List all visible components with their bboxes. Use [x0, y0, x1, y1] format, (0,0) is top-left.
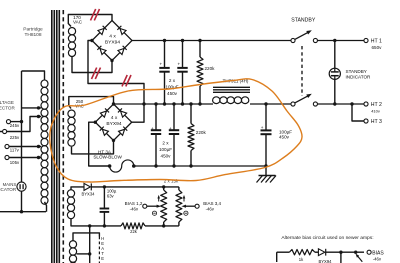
wire HT2 out: [318, 103, 365, 105]
wire bias top rail: [91, 186, 179, 188]
transformer electrostatic shield (dashed): [62, 10, 64, 263]
junction pot P1 top: [162, 185, 165, 188]
svg-text:+: +: [177, 61, 180, 66]
wire mains live bus: [21, 71, 23, 182]
red cut mark 2: [92, 68, 97, 79]
svg-text:220k: 220k: [205, 66, 216, 71]
capacitor C4 100u 63v: [103, 187, 105, 209]
polarity symbol P1: [152, 211, 156, 215]
svg-text:450v: 450v: [279, 135, 290, 140]
svg-text:Alternate bias circuit used on: Alternate bias circuit used on newer amp…: [281, 235, 373, 241]
wire mains bus below indicator: [21, 191, 23, 212]
junction cap C4 bottom: [103, 224, 106, 227]
terminal BIAS -46v: [367, 250, 371, 254]
fuse F1 HT 3A: [110, 160, 134, 172]
svg-text:-46v: -46v: [373, 256, 382, 261]
junction alt node A: [339, 251, 342, 254]
wire HT1 out: [318, 40, 365, 42]
red cut mark 1: [91, 9, 96, 20]
svg-text:HT 1: HT 1: [371, 39, 382, 45]
svg-text:245v: 245v: [10, 123, 20, 128]
wire 225v tap: [7, 117, 42, 132]
resistor R2 220k: [190, 104, 192, 124]
junction 245v bus: [20, 120, 23, 123]
primary winding: [41, 80, 48, 88]
junction cap C4 top: [103, 185, 106, 188]
wire S2 top to BR2: [69, 97, 114, 109]
svg-text:SELECTOR: SELECTOR: [0, 106, 15, 111]
wire heater CT lead: [77, 253, 90, 255]
svg-text:Partridge: Partridge: [23, 26, 43, 32]
terminal 105v: [5, 155, 9, 159]
svg-text:TH8108: TH8108: [24, 32, 41, 38]
junction resistor R1 bottom: [198, 102, 201, 105]
ground: [265, 166, 267, 176]
diode BR2 top-right: [118, 108, 127, 117]
wire HT1 rail: [132, 40, 291, 42]
wire S3 bottom lead: [71, 219, 121, 226]
wire heater top lead: [73, 233, 99, 241]
junction tap 225v coil: [37, 115, 40, 118]
svg-text:4 x: 4 x: [111, 115, 118, 121]
wire BR2 right vertex to mid rail: [132, 104, 144, 122]
junction cap C2b bottom: [172, 164, 175, 167]
junction HT3 branch: [350, 102, 353, 105]
terminal BIAS 3,4: [195, 204, 199, 208]
svg-text:BYX34: BYX34: [81, 191, 95, 196]
svg-text:HT 2: HT 2: [371, 102, 382, 108]
junction tap 117v coil: [37, 145, 40, 148]
potentiometer P2 15k: [178, 187, 180, 190]
junction pot P1 bottom: [162, 224, 165, 227]
junction cap C1b top: [181, 39, 184, 42]
diode BR2 top-left: [100, 108, 109, 117]
standby switch SW1b: [291, 102, 295, 106]
svg-text:BIAS: BIAS: [372, 250, 384, 256]
junction cap C1b bottom: [181, 102, 184, 105]
terminal BIAS 1,2: [143, 204, 147, 208]
wire alt left end: [276, 252, 278, 262]
resistor R3 22k: [121, 223, 145, 229]
standby indicator lamp: [329, 68, 340, 79]
svg-text:450v: 450v: [167, 91, 178, 96]
bridge rectifier BR2 diamond: [95, 104, 131, 140]
terminal HT 3: [364, 119, 368, 123]
wire 117v tap: [9, 146, 41, 148]
terminal HT 2: [364, 102, 368, 106]
wire alt branch A: [340, 252, 342, 263]
wire S2 bottom to BR2: [72, 140, 114, 154]
standby switch SW1a: [291, 38, 295, 42]
wire S3 top lead: [71, 187, 84, 190]
svg-text:2 x: 2 x: [162, 141, 169, 146]
wiper arrow BIAS 1,2: [147, 205, 158, 207]
wire indicator branch: [334, 41, 336, 69]
capacitor C3 100uF 450v: [265, 104, 267, 130]
wiper arrow BIAS 3,4: [185, 205, 195, 207]
potentiometer P1 15k: [163, 187, 165, 190]
resistor R4 1k: [289, 250, 314, 255]
svg-text:STANDBY: STANDBY: [291, 17, 316, 23]
svg-text:BIAS 3,4: BIAS 3,4: [203, 201, 221, 206]
diode D2 BYX94: [318, 249, 324, 256]
junction standby indicator bottom: [333, 102, 336, 105]
wire HT3 branch: [352, 104, 364, 121]
wire heater CT bus: [89, 226, 91, 263]
polarity symbol P2: [184, 211, 188, 215]
svg-text:220k: 220k: [196, 130, 207, 135]
transformer T1 core laminations: [51, 10, 53, 263]
svg-text:INDICATOR: INDICATOR: [346, 74, 372, 79]
svg-text:VAC: VAC: [73, 20, 83, 25]
svg-text:22k: 22k: [130, 229, 138, 234]
junction BR2 left vertex: [94, 121, 97, 124]
junction BR2 top vertex: [112, 102, 115, 105]
diode BR1 top-left: [98, 26, 107, 35]
svg-text:BYX94: BYX94: [318, 259, 332, 263]
wire alt out: [326, 251, 364, 253]
svg-text:63v: 63v: [107, 193, 115, 198]
orange highlight ellipse: [50, 79, 302, 182]
junction cap C3 top: [264, 102, 267, 105]
svg-text:410v: 410v: [371, 109, 380, 114]
wire BR2 negative to fuse: [89, 122, 110, 166]
junction alt node B: [354, 251, 357, 254]
diode BR1 bottom-right: [118, 46, 127, 55]
svg-text:BYX94: BYX94: [106, 121, 122, 127]
svg-text:+: +: [261, 125, 264, 130]
svg-text:VOLTAGE: VOLTAGE: [0, 100, 14, 105]
junction cap C2a bottom: [154, 164, 157, 167]
junction cap C1a bottom: [163, 102, 166, 105]
junction BR2 bottom vertex: [112, 139, 115, 142]
svg-text:4 x: 4 x: [109, 33, 116, 39]
terminal HT 1: [364, 38, 368, 42]
diode BR2 bottom-right: [119, 127, 128, 136]
junction tap 105v coil: [37, 156, 40, 159]
svg-text:BIAS 1,2: BIAS 1,2: [125, 201, 143, 206]
junction resistor R2 top: [189, 102, 192, 105]
junction BR1 left vertex: [90, 39, 93, 42]
junction heater CT branch: [88, 224, 91, 227]
diode BR1 bottom-left: [97, 46, 106, 55]
svg-text:E: E: [101, 256, 104, 261]
junction cap C2a top: [154, 102, 157, 105]
junction BR1 bottom vertex: [110, 59, 113, 62]
junction tap 245v coil: [37, 106, 40, 109]
junction mains bottom: [20, 210, 23, 213]
svg-text:-46v: -46v: [130, 207, 139, 212]
wire primary bottom lead: [45, 202, 47, 212]
secondary winding S2 250VAC: [68, 110, 75, 117]
terminal 225v: [0, 131, 2, 133]
svg-text:225v: 225v: [10, 135, 20, 140]
svg-text:STANDBY: STANDBY: [346, 69, 367, 74]
wire alt mid: [315, 251, 319, 253]
red cut mark 3: [122, 75, 127, 86]
capacitor C1a 100uF: [164, 41, 166, 68]
svg-text:117v: 117v: [10, 148, 20, 153]
wire 245v tap: [11, 121, 22, 123]
bridge rectifier BR1 diamond: [92, 21, 132, 61]
wire bias bottom rail: [145, 225, 179, 227]
wire mains bottom rail: [0, 211, 46, 213]
svg-text:100µF: 100µF: [159, 147, 172, 152]
svg-text:105v: 105v: [10, 160, 20, 165]
diode BR2 bottom-left: [100, 127, 109, 136]
svg-text:HT 3A: HT 3A: [98, 149, 112, 154]
svg-text:-46v: -46v: [206, 207, 215, 212]
svg-text:650v: 650v: [372, 45, 383, 50]
junction resistor R1 top: [198, 39, 201, 42]
bias winding S3: [67, 190, 74, 197]
svg-text:+: +: [151, 126, 154, 131]
junction cap C2b top: [172, 102, 175, 105]
wire 105v tap: [9, 157, 41, 159]
wire S1 bottom to bridge BR1 AC: [72, 57, 112, 73]
svg-text:450v: 450v: [161, 154, 172, 159]
terminal 245v: [6, 120, 10, 124]
svg-text:+: +: [169, 126, 172, 131]
capacitor C1b 100uF: [182, 41, 184, 68]
wire mid rail: [114, 103, 214, 105]
junction mid rail x144: [142, 102, 145, 105]
wire ground rail: [134, 165, 266, 167]
trimpot wiper arrow: [357, 255, 362, 261]
capacitor C2a 100uF: [155, 104, 157, 130]
svg-text:INDICATOR: INDICATOR: [0, 187, 17, 192]
mains indicator lamp: [17, 182, 26, 191]
svg-text:BYX94: BYX94: [105, 39, 121, 45]
resistor R1 220k: [199, 41, 201, 58]
ganged switch link (dashed): [301, 46, 303, 96]
capacitor C2b 100uF: [173, 104, 175, 130]
junction standby indicator top: [333, 39, 336, 42]
wire primary top lead: [22, 71, 45, 81]
wire BR1 negative output: [88, 41, 144, 105]
svg-text:2 x: 2 x: [169, 78, 176, 83]
junction ground node: [264, 164, 267, 167]
adjust arrow P1: [158, 197, 160, 202]
svg-text:SLOW-BLOW: SLOW-BLOW: [93, 155, 122, 160]
terminal 117v: [5, 144, 9, 148]
diode D1 bias: [84, 183, 90, 190]
junction heater CT: [88, 252, 91, 255]
adjust arrow P2: [183, 197, 185, 202]
svg-text:HT 3: HT 3: [371, 119, 382, 125]
diode BR1 top-right: [117, 26, 126, 35]
choke L1 winding: [213, 97, 220, 104]
wire choke to standby switch 2: [250, 103, 291, 105]
heater winding S4: [69, 241, 76, 248]
wire S1 top to bridge BR1 AC: [68, 15, 112, 27]
secondary winding S1 170VAC: [68, 28, 75, 35]
svg-text:+: +: [159, 61, 162, 66]
wire heater output (dashed): [98, 237, 100, 263]
choke L1 core: [213, 86, 250, 88]
junction cap C1a top: [163, 39, 166, 42]
junction resistor R2 bottom: [189, 164, 192, 167]
